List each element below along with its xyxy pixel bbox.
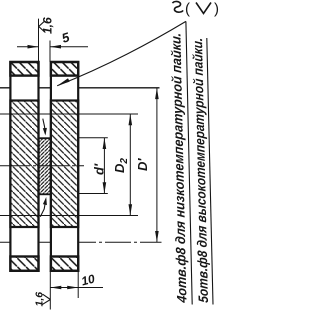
node bottom hole axis centerline	[0, 241, 162, 243]
plate left body	[10, 62, 38, 271]
surface finish mark S(V) top right	[173, 1, 184, 12]
wire extension line above right plate inner face	[49, 41, 51, 63]
plate right body	[51, 62, 78, 271]
wire extension line below right plate outer face	[77, 271, 79, 298]
dimension 1,6 bottom callout	[42, 294, 51, 305]
wire D2 top extension	[0, 113, 138, 115]
node top hole axis line	[0, 87, 160, 89]
dimension 10 (plate thickness)	[50, 286, 103, 290]
wire d' top extension	[77, 137, 108, 139]
dimension 1,6 top callout	[39, 21, 45, 32]
node main axis centerline	[0, 165, 84, 167]
leader to solder hole	[57, 21, 186, 85]
wire extension line below right plate inner face	[49, 271, 51, 310]
svg-text:D′: D′	[135, 158, 150, 171]
dimension d'	[103, 138, 107, 194]
svg-text:1,6: 1,6	[34, 292, 46, 307]
wire note shelf / underline line 1	[186, 21, 192, 304]
mini leader arrow bottom (solder joint)	[40, 197, 47, 217]
svg-text:d′: d′	[92, 163, 107, 175]
svg-text:): )	[214, 1, 219, 18]
dimension D2	[129, 114, 133, 216]
wire d' bottom extension	[77, 193, 108, 195]
svg-text:1,6: 1,6	[41, 17, 55, 34]
wire D2 bottom extension	[0, 215, 138, 217]
rod d' cross-section	[39, 138, 51, 194]
wire underline line 2	[207, 38, 213, 305]
mini leader arrow top (solder joint)	[43, 119, 47, 136]
wire extension line above left plate inner face	[38, 19, 40, 62]
dimension 5 (gap)	[17, 45, 88, 49]
dimension D'	[155, 88, 159, 243]
svg-text:(: (	[185, 1, 190, 18]
